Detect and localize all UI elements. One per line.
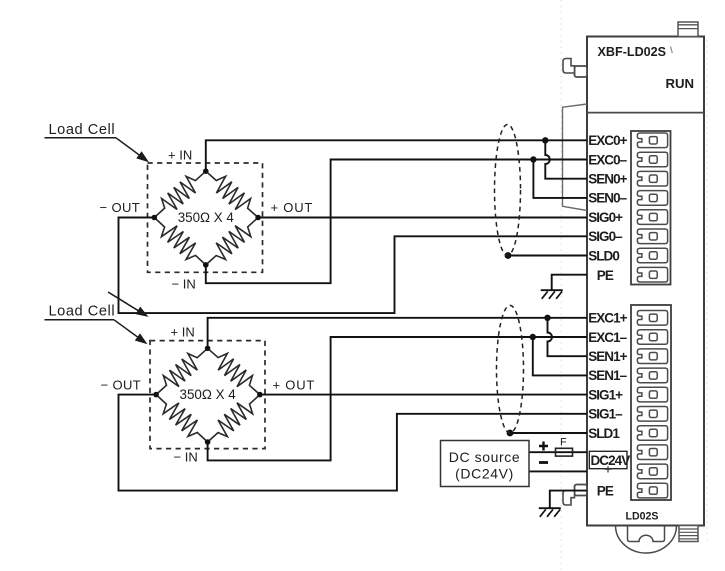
svg-text:DC source: DC source <box>449 449 521 465</box>
svg-text:− IN: − IN <box>174 450 198 465</box>
terminal screw SEN0+ <box>637 171 667 186</box>
svg-text:Load Cell: Load Cell <box>49 304 116 320</box>
junction dot SLD1 shield <box>507 430 514 437</box>
node -OUT load cell 1 <box>152 215 158 221</box>
ground symbol channel 0 PE <box>541 289 563 291</box>
resistor R1 load cell 1 <box>154 171 206 217</box>
node -OUT load cell 2 <box>153 392 159 398</box>
wire SIG1- from -OUT cell2 (wrap below cell2) <box>119 395 588 491</box>
terminal screw SIG0- <box>637 229 667 244</box>
svg-text:RUN: RUN <box>666 76 695 91</box>
resistor R8 load cell 2 <box>208 395 260 442</box>
polarity tick below DC24V <box>605 466 612 472</box>
module bottom tab with notch <box>628 526 665 542</box>
shield ellipse cable 0 <box>495 125 521 256</box>
resistor R6 load cell 2 <box>208 348 260 394</box>
terminal screw PE <box>637 267 667 282</box>
node -IN load cell 2 <box>205 439 211 445</box>
terminal screw SIG0+ <box>637 210 667 225</box>
DIN rail clip bottom <box>575 485 588 496</box>
svg-text:SEN1+: SEN1+ <box>588 349 627 364</box>
faint page guide line left <box>560 0 562 571</box>
svg-text:+ OUT: + OUT <box>271 200 314 215</box>
plus symbol <box>539 442 548 451</box>
wire DC24V plus <box>529 451 587 453</box>
svg-text:SIG1–: SIG1– <box>588 407 623 422</box>
junction dot EXC0+ <box>542 137 548 143</box>
wire EXC0- from -IN cell1 <box>206 160 587 284</box>
terminal screw SLD1 <box>637 426 667 441</box>
svg-text:DC24V: DC24V <box>591 453 631 468</box>
terminal screw EXC0+ <box>637 133 667 148</box>
wire EXC1- from -IN cell2 <box>208 337 587 460</box>
wire SEN1+ jumper from EXC1+ with hop over EXC1- <box>548 318 588 356</box>
terminal screw SEN1- <box>637 368 667 383</box>
svg-text:+ OUT: + OUT <box>273 378 316 393</box>
wire SEN1- jumper from EXC1- <box>533 337 587 375</box>
svg-text:SEN0–: SEN0– <box>588 191 627 206</box>
svg-text:EXC1+: EXC1+ <box>588 311 627 326</box>
terminal screw SIG1+ <box>637 387 667 402</box>
node +OUT load cell 2 <box>257 392 263 398</box>
wire SIG1+ from +OUT cell2 <box>260 394 587 396</box>
svg-text:+ IN: + IN <box>168 148 192 163</box>
module left side panel <box>563 104 588 211</box>
wire SLD1 shield drain <box>510 432 587 434</box>
node -IN load cell 1 <box>203 262 209 268</box>
node +IN load cell 1 <box>203 168 209 174</box>
shield ellipse cable 1 <box>497 305 524 433</box>
svg-text:− OUT: − OUT <box>100 200 141 215</box>
node +IN load cell 2 <box>205 346 211 352</box>
node +OUT load cell 1 <box>255 215 261 221</box>
svg-text:+ IN: + IN <box>171 325 195 340</box>
svg-text:− IN: − IN <box>172 277 196 292</box>
wire DC24V minus <box>529 470 587 472</box>
junction dot EXC1+ <box>544 315 550 321</box>
svg-text:SEN1–: SEN1– <box>588 368 627 383</box>
wire EXC0+ from +IN cell1 <box>206 140 587 171</box>
terminal screw EXC1- <box>637 330 667 345</box>
junction dot SLD0 shield <box>505 252 512 259</box>
resistor R3 load cell 1 <box>154 218 206 265</box>
wire EXC1+ from +IN cell2 <box>208 318 587 349</box>
resistor R2 load cell 1 <box>206 171 258 217</box>
terminal screw SIG1- <box>637 407 667 422</box>
extra pointer arrow to SIG0- wrap wire <box>108 292 143 313</box>
svg-text:SIG1+: SIG1+ <box>588 387 623 402</box>
svg-text:SLD1: SLD1 <box>588 426 620 441</box>
faint page guide line right <box>706 40 708 540</box>
wire SEN0+ jumper from EXC0+ with hop over EXC0- <box>545 140 587 178</box>
svg-text:SIG0–: SIG0– <box>588 229 623 244</box>
terminal block 1 <box>631 305 671 500</box>
module header divider <box>587 112 704 114</box>
svg-text:PE: PE <box>597 268 614 283</box>
svg-text:SEN0+: SEN0+ <box>588 172 627 187</box>
wire PE channel 0 <box>552 275 587 291</box>
wire SLD0 shield drain <box>508 255 587 257</box>
fuse F <box>556 448 573 456</box>
svg-text:350Ω X 4: 350Ω X 4 <box>180 387 237 402</box>
DC source box <box>441 441 530 487</box>
resistor R7 load cell 2 <box>156 395 208 442</box>
svg-text:SIG0+: SIG0+ <box>588 210 623 225</box>
terminal screw EXC1+ <box>637 311 667 326</box>
module bottom-right knob <box>679 526 698 542</box>
terminal screw PE <box>637 483 667 498</box>
svg-text:SLD0: SLD0 <box>588 248 619 263</box>
resistor R4 load cell 1 <box>206 218 258 265</box>
ground symbol channel 1 PE <box>539 507 561 509</box>
load cell 2 dashed enclosure <box>150 341 265 449</box>
svg-text:− OUT: − OUT <box>101 378 142 393</box>
terminal screw DC24V <box>637 445 667 460</box>
DIN rail clip top <box>575 66 588 77</box>
terminal screw SEN0- <box>637 191 667 206</box>
terminal screw SEN1+ <box>637 349 667 364</box>
svg-text:350Ω X 4: 350Ω X 4 <box>178 210 235 225</box>
leader line Load Cell 2 <box>45 319 115 321</box>
wire SIG0- from -OUT cell1 (wrap below cell1) <box>119 218 588 314</box>
svg-text:F: F <box>560 437 567 449</box>
terminal screw spare <box>637 464 667 479</box>
junction dot EXC1- <box>530 334 536 340</box>
junction dot EXC0- <box>530 156 536 162</box>
terminal screw EXC0- <box>637 152 667 167</box>
svg-text:Load Cell: Load Cell <box>49 122 116 138</box>
svg-text:EXC1–: EXC1– <box>588 330 627 345</box>
module bottom mounting arc <box>616 526 677 554</box>
svg-text:LD02S: LD02S <box>626 511 659 523</box>
svg-text:EXC0–: EXC0– <box>588 152 627 167</box>
module top knob <box>678 22 698 37</box>
wire PE channel 1 <box>550 491 587 509</box>
wire SEN0- jumper from EXC0- <box>533 160 587 198</box>
svg-text:PE: PE <box>597 484 614 499</box>
PLC module XBF-LD02S body <box>587 37 704 526</box>
pin label DC24V with box <box>589 451 627 468</box>
leader line Load Cell 1 <box>45 137 117 139</box>
svg-text:(DC24V): (DC24V) <box>455 466 514 482</box>
minus symbol <box>539 461 548 464</box>
svg-text:EXC0+: EXC0+ <box>588 133 627 148</box>
wire SIG0+ from +OUT cell1 <box>258 217 587 219</box>
terminal screw SLD0 <box>637 248 667 263</box>
svg-text:XBF-LD02S: XBF-LD02S <box>598 45 667 59</box>
terminal block 0 <box>631 131 671 285</box>
load cell 1 dashed enclosure <box>148 163 263 272</box>
resistor R5 load cell 2 <box>156 348 208 394</box>
